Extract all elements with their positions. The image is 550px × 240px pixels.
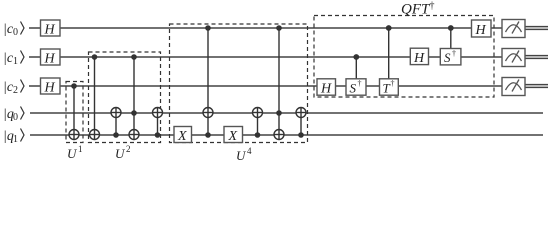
svg-text:4: 4: [247, 146, 252, 156]
svg-text:1: 1: [13, 134, 18, 145]
svg-text:U: U: [115, 146, 126, 161]
Toffoli controls c1,q0 / target q1 (U2 gate 3): [129, 54, 139, 139]
svg-text:†: †: [358, 79, 362, 88]
CNOT control q1 / target q0 (U2 gate 4): [153, 108, 163, 138]
svg-text:T: T: [383, 81, 391, 96]
gate H on c2 (QFT): [317, 79, 336, 97]
controlled S-dagger: control c0, gate S-dagger on c1: [448, 25, 454, 48]
svg-text:H: H: [44, 23, 56, 38]
svg-text:H: H: [475, 23, 487, 38]
dashed box QFT-dagger: [314, 16, 494, 98]
svg-text:0: 0: [13, 112, 18, 123]
svg-text:S: S: [444, 50, 451, 65]
svg-text:†: †: [391, 79, 395, 88]
gate H on c0 (QFT): [472, 20, 492, 38]
node label |c0>: [3, 22, 24, 39]
node label |c1>: [3, 51, 24, 68]
measurement meter on c2: [502, 78, 525, 96]
classical double wire c2: [524, 85, 548, 88]
CNOT control c2 / target q1 (U1): [69, 83, 79, 139]
gate X on q1 (second): [224, 127, 243, 145]
wire q0: [30, 112, 543, 114]
measurement meter on c0: [502, 20, 525, 38]
svg-text:1: 1: [78, 144, 83, 154]
CNOT control q1 / target q0 (U4 last): [296, 108, 306, 138]
svg-text:2: 2: [13, 85, 18, 96]
controlled S-dagger: control c1, gate S-dagger on c2: [353, 54, 359, 79]
svg-text:X: X: [228, 129, 238, 144]
svg-text:QFT: QFT: [401, 2, 431, 18]
svg-text:0: 0: [13, 27, 18, 38]
svg-text:U: U: [67, 146, 78, 161]
classical double wire c0: [525, 27, 548, 30]
svg-text:U: U: [236, 148, 247, 163]
gate H on c1: [41, 49, 61, 67]
svg-text:H: H: [44, 52, 56, 67]
classical double wire c1: [524, 56, 548, 59]
node label |c2>: [3, 80, 24, 97]
dashed box U4: [170, 24, 308, 143]
gate H on c2: [41, 78, 61, 96]
svg-text:H: H: [44, 81, 56, 96]
svg-text:†: †: [430, 1, 435, 12]
wire c0: [29, 27, 502, 29]
node label |q1>: [3, 129, 24, 146]
svg-text:H: H: [413, 51, 425, 66]
controlled T-dagger: control c0, gate T-dagger on c2: [386, 25, 392, 79]
CNOT control q1 / target q0 (U2 gate 2): [111, 108, 121, 138]
label U2: [115, 144, 131, 161]
svg-text:1: 1: [13, 56, 18, 67]
svg-text:H: H: [320, 82, 332, 97]
CNOT control q1 / target q0 (U4): [253, 108, 263, 138]
gate H on c0: [41, 20, 61, 38]
CNOT control c1 / target q1 (U2 gate 1): [90, 54, 100, 139]
gate X on q1 (first): [174, 127, 192, 145]
label U1: [67, 144, 83, 161]
svg-text:X: X: [177, 129, 187, 144]
dashed box U1: [66, 82, 83, 143]
node label |q0>: [3, 107, 24, 124]
svg-text:S: S: [350, 81, 357, 96]
wire q1: [30, 134, 543, 136]
gate H on c1 (QFT): [410, 48, 428, 66]
wire c2: [29, 85, 502, 87]
label QFT-dagger: [401, 1, 435, 18]
dashed box U2: [89, 52, 161, 143]
label U4: [236, 146, 252, 163]
svg-text:2: 2: [126, 144, 131, 154]
wire c1: [29, 56, 502, 58]
Toffoli controls c0,q0 / target q1 (U4): [274, 25, 284, 139]
Toffoli controls c0,q1 / target q0 (U4): [203, 25, 213, 138]
svg-text:†: †: [452, 49, 456, 58]
measurement meter on c1: [502, 49, 525, 67]
